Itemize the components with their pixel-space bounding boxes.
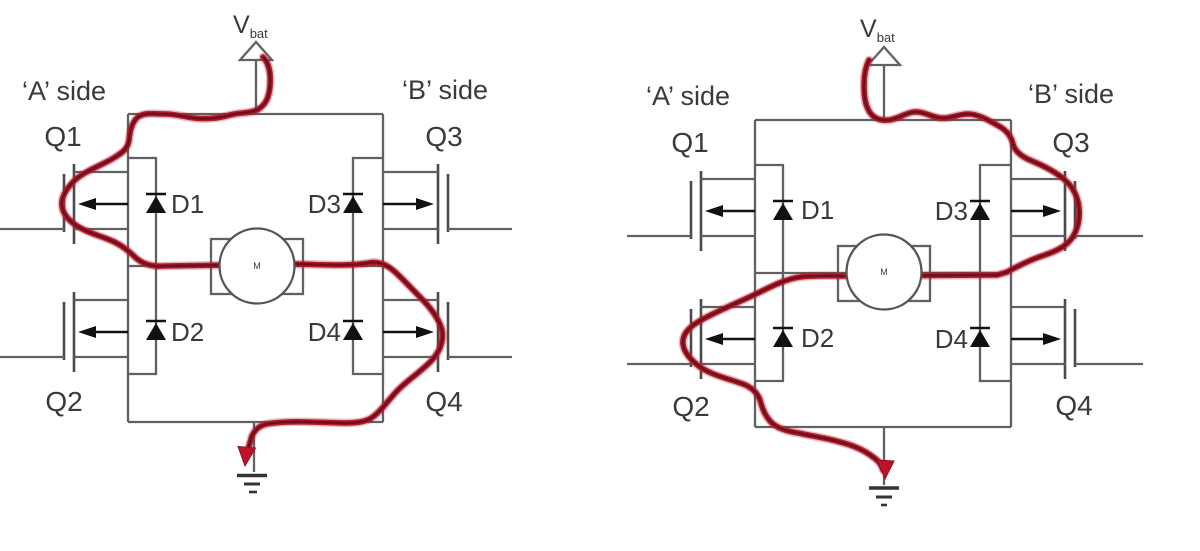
- ground: [237, 422, 267, 492]
- svg-text:D4: D4: [308, 317, 341, 347]
- svg-text:Q1: Q1: [671, 127, 708, 158]
- svg-text:‘B’ side: ‘B’ side: [1028, 79, 1114, 109]
- svg-text:‘B’ side: ‘B’ side: [402, 75, 488, 105]
- svg-text:D1: D1: [801, 195, 834, 225]
- svg-text:D4: D4: [935, 324, 968, 354]
- current path (Vbat through Q1, motor, Q4 to ground): [62, 57, 443, 448]
- wire bottom rail: [755, 426, 1011, 428]
- svg-text:Q3: Q3: [425, 121, 462, 152]
- diode D4: [970, 328, 990, 347]
- Vbat supply symbol: [868, 47, 900, 120]
- diode D1: [773, 201, 793, 220]
- wire top rail: [128, 113, 383, 115]
- ground: [869, 427, 899, 505]
- motor frame M2: [838, 246, 930, 301]
- transistor Q1: [0, 164, 128, 244]
- diode D2: [146, 321, 166, 340]
- wire left branch (node A phase leg): [754, 120, 756, 427]
- svg-text:M: M: [880, 267, 888, 277]
- transistor Q1: [627, 171, 755, 251]
- transistor Q3: [1011, 171, 1143, 251]
- motor M2 rotor: [847, 235, 922, 310]
- diode D1: [146, 194, 166, 213]
- svg-text:Q2: Q2: [672, 391, 709, 422]
- wire diode branch B (D3/D4): [980, 165, 1011, 381]
- diode D2: [773, 328, 793, 347]
- transistor Q4: [383, 292, 512, 372]
- wire left branch (node A phase leg): [127, 114, 129, 422]
- wire diode branch B (D3/D4): [353, 158, 383, 374]
- svg-text:Q4: Q4: [425, 386, 462, 417]
- diode D3: [343, 194, 363, 213]
- transistor Q2: [627, 299, 755, 379]
- motor M1 rotor: [220, 229, 295, 304]
- diode D3: [970, 201, 990, 220]
- transistor Q4: [1011, 299, 1143, 379]
- svg-text:M: M: [253, 261, 261, 271]
- svg-text:Q4: Q4: [1055, 390, 1092, 421]
- svg-text:‘A’ side: ‘A’ side: [22, 76, 106, 106]
- current arrowhead (to ground): [877, 460, 894, 479]
- svg-text:‘A’ side: ‘A’ side: [646, 81, 730, 111]
- wire diode branch A (D1/D2): [755, 165, 783, 381]
- Vbat supply symbol: [240, 42, 272, 114]
- transistor Q2: [0, 292, 128, 372]
- svg-text:D3: D3: [308, 189, 341, 219]
- wire right branch (node B phase leg): [382, 114, 384, 422]
- svg-text:Q1: Q1: [44, 121, 81, 152]
- diode D4: [343, 321, 363, 340]
- wire top rail: [755, 119, 1011, 121]
- svg-text:D2: D2: [171, 317, 204, 347]
- wire motor link: [755, 272, 1011, 274]
- transistor Q3: [383, 164, 512, 244]
- svg-text:Q2: Q2: [45, 386, 82, 417]
- svg-text:D2: D2: [801, 323, 834, 353]
- wire right branch (node B phase leg): [1010, 120, 1012, 427]
- wire diode branch A (D1/D2): [128, 158, 156, 374]
- wire bottom rail: [128, 421, 383, 423]
- svg-text:Q3: Q3: [1052, 127, 1089, 158]
- current arrowhead (to ground): [238, 447, 256, 467]
- wire motor link: [128, 265, 383, 267]
- motor frame M1: [211, 239, 303, 294]
- svg-text:D1: D1: [171, 189, 204, 219]
- svg-text:D3: D3: [935, 196, 968, 226]
- current path (Vbat through Q3, motor, Q2 to ground): [683, 60, 1079, 470]
